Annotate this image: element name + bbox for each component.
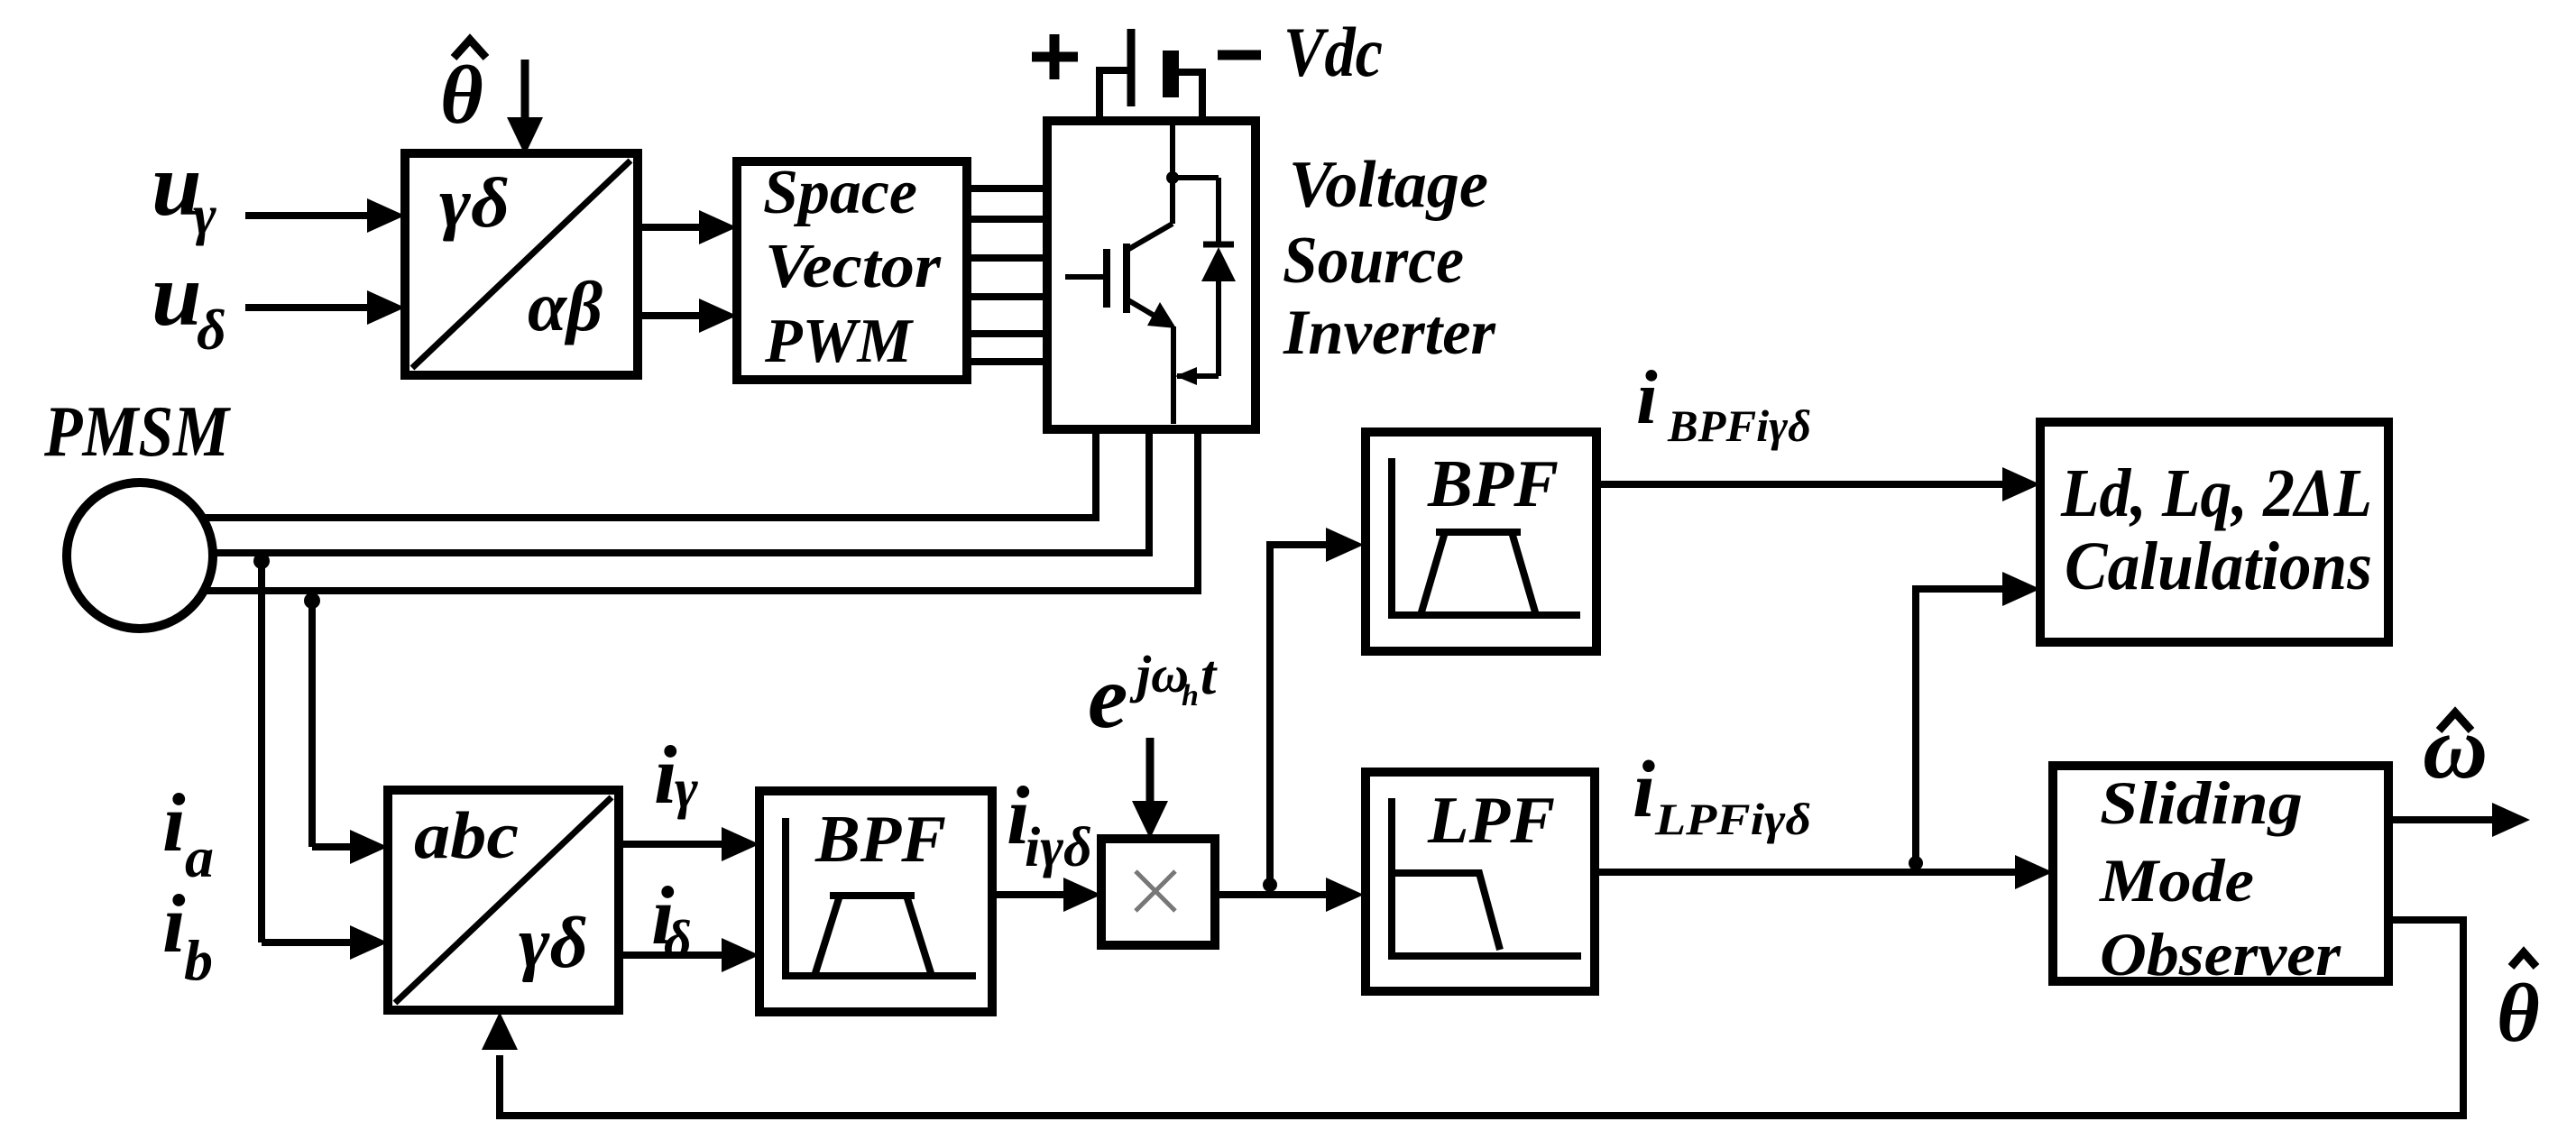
svg-text:BPF: BPF [814, 803, 946, 877]
wire DC link right stub [1179, 72, 1202, 121]
wire phase a from PMSM to inverter [153, 429, 1096, 518]
block U4 abc to gamma-delta transform [388, 790, 619, 1010]
svg-text:PWM: PWM [764, 307, 915, 376]
svg-text:Calulations: Calulations [2065, 529, 2372, 604]
wire gate line 4 [967, 293, 1047, 300]
svg-text:γδ: γδ [439, 163, 510, 242]
wire transform output 2 to SVPWM [638, 299, 737, 333]
svg-text:h: h [1182, 679, 1199, 712]
svg-text:b: b [184, 928, 213, 992]
svg-text:Inverter: Inverter [1283, 298, 1496, 368]
block U1 gamma-delta to alpha-beta transform [405, 153, 638, 375]
svg-text:θ: θ [2497, 967, 2540, 1059]
block U8 low-pass filter LPF [1366, 772, 1595, 991]
node i_LPFigd label [1633, 745, 1811, 844]
wire LPF output to sliding mode observer [1595, 855, 2053, 889]
node i_a label [162, 777, 214, 889]
svg-text:Vdc: Vdc [1283, 13, 1383, 91]
wire gate line 2 [967, 216, 1047, 223]
wire DC link left stub [1099, 70, 1127, 121]
svg-text:LPF: LPF [1427, 784, 1555, 858]
svg-text:i: i [1636, 355, 1658, 440]
wire u_delta input [245, 290, 405, 325]
node Voltage Source Inverter label [1283, 148, 1496, 368]
diode D1 freewheeling [1173, 178, 1236, 376]
svg-text:Mode: Mode [2099, 846, 2254, 915]
block U3 Voltage Source Inverter box [1047, 121, 1256, 429]
svg-text:γ: γ [193, 185, 216, 246]
node omega-hat output label [2423, 697, 2488, 797]
node i_gamma label [654, 729, 698, 821]
wire junction up to calculations [1916, 572, 2040, 872]
svg-text:θ: θ [440, 49, 483, 141]
svg-text:i: i [162, 878, 186, 970]
block U5 band-pass filter BPF1 [759, 791, 992, 1012]
svg-text:LPFiγδ: LPFiγδ [1654, 794, 1811, 844]
wire BPF1 output to multiplier [992, 878, 1101, 912]
wire multiplier output to LPF [1215, 878, 1364, 912]
wire omega-hat output [2388, 803, 2530, 837]
wire Q1 gate lead [1065, 274, 1103, 280]
block U10 sliding mode observer [2053, 766, 2388, 988]
svg-text:a: a [185, 825, 214, 889]
wire u_gamma input [245, 198, 405, 233]
node i_b label [162, 878, 213, 992]
svg-text:αβ: αβ [528, 267, 603, 345]
svg-text:Voltage: Voltage [1289, 148, 1488, 222]
transistor Q1 IGBT bars [1107, 244, 1127, 313]
transistor Q1 IGBT collector lead [1127, 125, 1173, 250]
node i_igd label [1007, 769, 1092, 878]
svg-text:γ: γ [675, 758, 698, 820]
svg-text:t: t [1201, 645, 1218, 706]
wire transform output 1 to SVPWM [638, 210, 737, 244]
capacitor C1 left plate [1127, 29, 1136, 106]
wire phase c from PMSM to inverter [155, 429, 1198, 591]
wire theta-hat feedback to abc transform [482, 920, 2463, 1116]
transistor Q1 emitter lead with arrow [1128, 300, 1176, 424]
svg-text:δ: δ [197, 298, 226, 362]
node theta-hat (top input label) [440, 40, 486, 141]
wire current sensor ib drop [262, 553, 388, 960]
wire e^jwt into multiplier [1132, 738, 1168, 839]
node + (DC link positive) [1032, 34, 1078, 79]
svg-text:Vector: Vector [765, 232, 942, 301]
wire gate line 5 [967, 330, 1047, 337]
svg-text:Ld, Lq, 2ΔL: Ld, Lq, 2ΔL [2060, 455, 2372, 531]
node i_BPFigd label [1636, 355, 1811, 451]
wire i_delta to BPF [619, 938, 759, 972]
motor M1 PMSM circle [67, 483, 213, 629]
svg-text:e: e [1088, 647, 1127, 747]
node collector junction dot [1166, 171, 1179, 184]
wire current sensor ia drop [312, 591, 388, 864]
wire gate line 1 [967, 185, 1047, 192]
node u_gamma (input label) [152, 134, 216, 246]
svg-text:Observer: Observer [2100, 920, 2341, 988]
block U7 band-pass filter BPF2 [1366, 432, 1596, 651]
wire gate line 3 [967, 254, 1047, 262]
wire emitter-diode bottom connector [1175, 367, 1219, 385]
svg-text:BPF: BPF [1427, 447, 1559, 521]
svg-text:δ: δ [664, 910, 692, 970]
svg-text:Space: Space [763, 158, 917, 227]
node theta-hat output label [2497, 952, 2540, 1059]
block U9 Ld Lq 2dL calculations [2040, 422, 2388, 642]
svg-text:i: i [1633, 745, 1655, 834]
svg-text:PMSM: PMSM [43, 392, 231, 472]
node junction to calculations [1909, 856, 1923, 870]
wire junction up to BPF2 [1270, 528, 1364, 895]
wire BPF2 output to calculations [1596, 467, 2040, 501]
svg-text:BPFiγδ: BPFiγδ [1667, 400, 1811, 451]
node e^jwt label [1088, 645, 1218, 747]
svg-text:u: u [152, 244, 202, 345]
block U2 Space Vector PWM [737, 158, 967, 380]
node u_delta (input label) [152, 244, 226, 362]
svg-text:Sliding: Sliding [2100, 768, 2303, 837]
wire i_gamma to BPF [619, 827, 759, 861]
svg-text:i: i [162, 777, 186, 869]
block U6 multiplier [1101, 839, 1215, 945]
wire gate line 6 [967, 358, 1047, 365]
node junction tap phase c [304, 593, 320, 609]
node i_delta label [651, 869, 692, 970]
capacitor C1 right plate [1163, 51, 1179, 97]
svg-text:jω: jω [1129, 645, 1189, 703]
svg-text:Source: Source [1283, 224, 1464, 298]
svg-text:iγδ: iγδ [1025, 817, 1092, 878]
node junction to BPF2 [1263, 878, 1277, 892]
node - (DC link negative) [1218, 51, 1261, 60]
wire theta-hat into gamma-delta/alpha-beta block [507, 60, 543, 155]
wire phase b from PMSM to inverter [158, 429, 1149, 553]
svg-text:γδ: γδ [519, 904, 588, 983]
svg-text:abc: abc [414, 799, 519, 873]
node junction tap phase b [253, 553, 270, 569]
